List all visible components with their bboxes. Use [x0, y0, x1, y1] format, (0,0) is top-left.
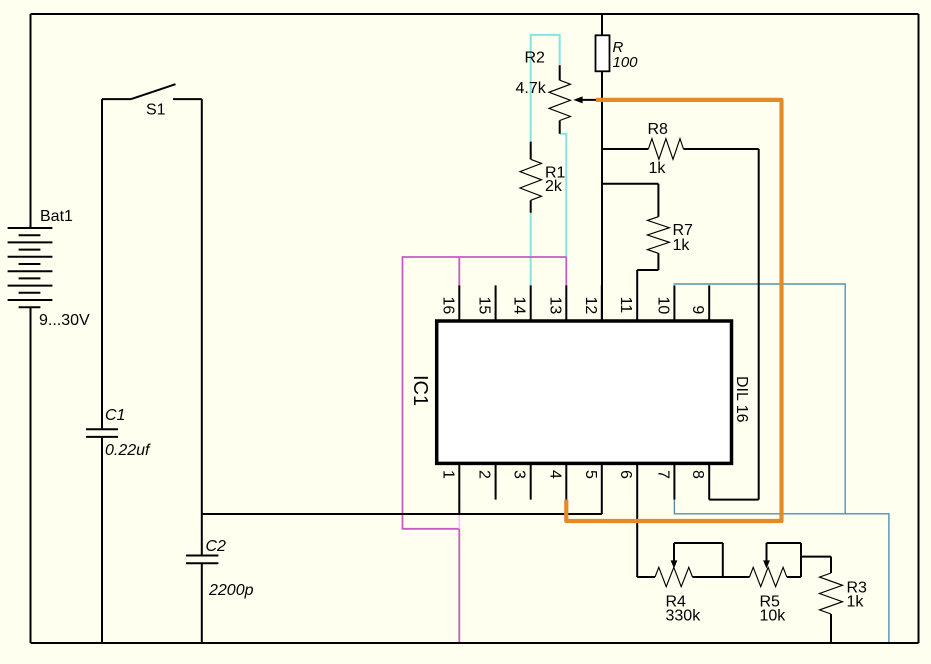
svg-text:12: 12	[582, 297, 599, 315]
svg-text:10: 10	[654, 297, 671, 315]
svg-text:0.22uf: 0.22uf	[105, 442, 151, 459]
svg-text:4: 4	[546, 470, 563, 479]
svg-text:6: 6	[617, 470, 634, 479]
svg-text:1k: 1k	[847, 594, 865, 611]
svg-text:2k: 2k	[545, 178, 563, 195]
svg-text:1: 1	[439, 470, 456, 479]
svg-text:R2: R2	[525, 50, 546, 67]
svg-text:7: 7	[654, 470, 671, 479]
svg-text:Bat1: Bat1	[40, 208, 73, 225]
svg-text:S1: S1	[146, 102, 166, 119]
svg-text:330k: 330k	[666, 608, 702, 625]
svg-text:16: 16	[439, 297, 456, 315]
svg-text:14: 14	[511, 297, 528, 315]
svg-text:1k: 1k	[673, 237, 691, 254]
svg-text:2: 2	[476, 470, 493, 479]
svg-text:11: 11	[617, 297, 634, 314]
svg-text:100: 100	[613, 54, 639, 71]
svg-text:2200p: 2200p	[208, 582, 254, 599]
svg-text:10k: 10k	[760, 608, 787, 625]
svg-text:4.7k: 4.7k	[516, 80, 547, 97]
svg-text:9: 9	[689, 305, 706, 314]
svg-text:9...30V: 9...30V	[39, 312, 90, 329]
svg-text:3: 3	[511, 470, 528, 479]
svg-text:C2: C2	[206, 538, 227, 555]
svg-text:13: 13	[546, 297, 563, 315]
svg-text:8: 8	[689, 470, 706, 479]
svg-text:1k: 1k	[649, 160, 667, 177]
svg-text:DIL 16: DIL 16	[733, 376, 750, 423]
svg-text:5: 5	[582, 470, 599, 479]
svg-text:C1: C1	[105, 407, 125, 424]
svg-text:IC1: IC1	[409, 375, 431, 406]
svg-text:15: 15	[476, 297, 493, 315]
svg-text:R8: R8	[648, 121, 669, 138]
